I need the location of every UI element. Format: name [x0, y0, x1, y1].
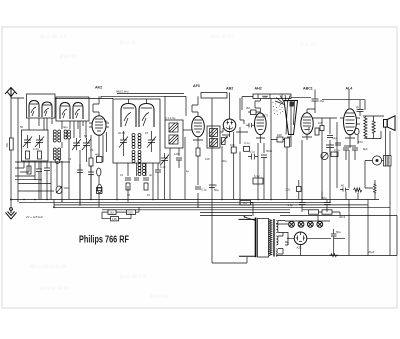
coil box L1	[27, 94, 56, 118]
coil L5	[64, 130, 71, 139]
svg-text:5000: 5000	[266, 149, 273, 153]
resistor R6	[126, 183, 130, 190]
wire col7	[79, 121, 81, 205]
svg-text:llll lllll llllll lll llll: llll lllll llllll lll llll	[120, 274, 147, 279]
svg-text:1,5µ: 1,5µ	[288, 203, 294, 207]
svg-text:30: 30	[127, 193, 131, 197]
svg-text:lllll llll llll llllll: lllll llll llll llllll	[210, 34, 233, 39]
IFT1 coil lower	[169, 135, 178, 144]
bus line 1	[11, 199, 379, 201]
wire ABC1 bottom	[302, 134, 312, 140]
svg-text:13: 13	[68, 157, 72, 161]
tuning indicator cone	[284, 101, 298, 135]
capacitor C20	[340, 188, 349, 192]
capacitor C22 50u	[324, 200, 331, 210]
resistor R11	[251, 110, 257, 115]
tube AB2 (duodiode)	[223, 119, 236, 132]
comp cluster c2	[343, 148, 358, 155]
resistor R14	[320, 126, 324, 131]
IF transformer IFT2	[207, 126, 220, 148]
ground E1	[6, 208, 17, 219]
pot arrow P1	[56, 187, 62, 194]
wire antenna to ground	[10, 150, 12, 207]
wire lamp rail	[276, 221, 330, 224]
transformer secondary heater2	[275, 249, 278, 257]
svg-text:ws: ws	[104, 119, 108, 123]
capacitor C17 50u	[331, 229, 337, 256]
svg-text:4µ: 4µ	[214, 183, 218, 187]
wire audio col1	[301, 140, 303, 200]
svg-text:0,5M: 0,5M	[307, 126, 311, 133]
pot circle P3	[321, 152, 328, 159]
output transformer secondary	[372, 121, 375, 133]
wire top feed left	[55, 96, 113, 98]
resistor R9	[231, 147, 236, 153]
capacitor C26	[88, 166, 94, 180]
wire L1 bottom drops	[29, 118, 52, 130]
wire psu top row	[200, 213, 290, 216]
capacitor C18	[96, 188, 102, 191]
resistor R20	[354, 188, 362, 192]
tube shield S1a	[29, 101, 39, 118]
tube shield S3a	[121, 104, 136, 128]
svg-text:4672: 4672	[262, 114, 269, 118]
svg-text:llll llll lllll: llll llll lllll	[300, 42, 316, 47]
SECTION:PSU	[200, 174, 397, 263]
junction dots left	[17, 161, 63, 180]
dial lamp LP2	[298, 221, 304, 227]
speaker coil	[384, 156, 392, 167]
wire AK2 top	[93, 96, 99, 112]
coil L3	[53, 130, 60, 142]
AK2 electrodes	[95, 112, 103, 131]
wire AL4 top	[291, 90, 349, 109]
svg-text:12: 12	[120, 173, 124, 177]
wire top bus a	[117, 93, 184, 95]
capacitor C14 25u	[312, 99, 319, 101]
wire al4 cath col	[344, 135, 358, 148]
svg-text:0,1-1,5µ: 0,1-1,5µ	[165, 116, 176, 120]
SECTION:DET	[201, 87, 298, 203]
svg-text:6,3V: 6,3V	[254, 174, 260, 178]
box 162	[240, 201, 251, 206]
svg-text:60: 60	[341, 184, 345, 188]
SECTION:GHOST	[30, 34, 316, 299]
wire audio col5	[346, 150, 355, 188]
electrode marks S2a	[61, 106, 69, 118]
svg-text:AK2: AK2	[95, 86, 102, 90]
svg-text:25µF: 25µF	[368, 250, 375, 254]
svg-text:3-12: 3-12	[160, 165, 166, 169]
speaker LS	[384, 116, 396, 131]
SECTION:BUSES	[10, 93, 397, 256]
svg-text:4µµ: 4µµ	[63, 125, 68, 129]
resistor R7	[144, 183, 148, 190]
wire AF3 col	[197, 156, 199, 207]
lamp rays	[275, 95, 290, 105]
transformer secondary HT	[276, 221, 278, 233]
svg-text:15: 15	[147, 193, 151, 197]
wire OT top	[365, 116, 384, 139]
svg-text:145: 145	[112, 217, 117, 221]
svg-text:128: 128	[205, 157, 210, 161]
capacitor C8	[176, 158, 182, 168]
svg-text:50: 50	[84, 134, 88, 138]
svg-text:2021: 2021	[127, 211, 134, 215]
junction node ant-gnd	[10, 199, 12, 201]
capacitor C9	[195, 187, 201, 189]
wire audio col3	[329, 118, 331, 202]
pot P1 1Mohm	[56, 186, 62, 194]
box 1001	[309, 210, 319, 214]
capacitor C10	[209, 185, 215, 188]
tube AF3	[192, 116, 205, 137]
svg-text:ABC1: ABC1	[303, 87, 313, 91]
anode dot	[287, 237, 289, 239]
transformer core gap lines	[273, 219, 274, 257]
svg-text:50: 50	[20, 125, 24, 129]
wire box links	[102, 207, 139, 218]
svg-text:Philips 766 RF: Philips 766 RF	[79, 235, 129, 246]
wire det col1	[222, 128, 223, 200]
box R16	[331, 152, 338, 157]
svg-text:10µ: 10µ	[332, 136, 337, 140]
resistor pot row: comp 1MO	[61, 200, 63, 203]
tube AL4	[344, 109, 357, 135]
trimmer T5	[119, 135, 128, 148]
capacitor C16 2u	[357, 100, 367, 116]
tube shield S2a	[60, 103, 70, 120]
wire right col r1	[299, 180, 358, 200]
wire mid vertical m2	[211, 99, 213, 217]
capacitor C7	[155, 163, 161, 180]
speaker field coil	[374, 184, 377, 193]
resistor R15	[315, 128, 319, 135]
wire bus drop a	[53, 200, 55, 208]
svg-text:980/2 kHz: 980/2 kHz	[116, 90, 129, 94]
bus line 5	[102, 209, 290, 211]
wire B2 col a	[116, 163, 118, 200]
wire cone down	[287, 135, 291, 148]
rectifier AZ1	[294, 232, 307, 245]
wire det col5	[263, 165, 265, 200]
wire left col1	[17, 121, 19, 202]
transformer primary winding	[269, 219, 272, 255]
wire B2 internals	[124, 131, 152, 156]
dial scale strip	[253, 94, 291, 99]
svg-text:2M: 2M	[246, 106, 251, 110]
trimmer pair T4	[82, 138, 91, 150]
wire dial feed	[242, 97, 253, 110]
svg-text:8µF: 8µF	[363, 147, 368, 151]
AK2 grid stubs	[89, 123, 109, 127]
box 2021	[127, 210, 136, 215]
wire ABC1 drop	[307, 90, 315, 114]
svg-text:2V + 128 kHz: 2V + 128 kHz	[25, 215, 43, 219]
box 145	[111, 217, 119, 221]
resistor zigzag R18	[330, 254, 338, 257]
box R12	[277, 137, 283, 142]
electrode marks S1b	[43, 105, 51, 116]
svg-text:100: 100	[230, 143, 235, 147]
svg-text:161: 161	[109, 211, 114, 215]
wire col9	[90, 135, 92, 200]
wire left col6	[68, 139, 70, 200]
wire psu bottom	[276, 255, 397, 257]
resistor P2 body	[222, 138, 226, 145]
AF3 electrodes	[194, 112, 202, 132]
wire B2 col e	[152, 163, 154, 200]
junction dots left2	[23, 199, 91, 206]
cone window	[290, 102, 295, 107]
wire left col5	[61, 142, 63, 202]
jack pins	[376, 159, 379, 162]
antenna A1	[5, 88, 17, 98]
wire left row extra	[15, 168, 35, 176]
wire AF3 cath	[193, 137, 203, 148]
electrode marks S3a	[123, 99, 134, 126]
wire B2 col c	[136, 163, 138, 176]
output transformer primary	[364, 118, 367, 139]
wire r11	[248, 111, 260, 114]
tube AH2	[254, 113, 266, 135]
wire IFT1 down	[170, 148, 179, 200]
tube shield S2b	[73, 103, 83, 120]
dial pointer marks	[258, 94, 282, 99]
SECTION:LEFT	[5, 88, 169, 220]
svg-text:50µ: 50µ	[322, 196, 327, 200]
wire AF3 top	[186, 96, 198, 116]
AL4 electrodes	[346, 113, 355, 131]
wire AK2 anode up	[165, 96, 186, 120]
AB2 diode plates	[226, 121, 233, 131]
wire left col3	[50, 161, 52, 200]
svg-text:llllll llll llllll llll llll l: llllll llll llllll llll llll llllll	[30, 264, 66, 269]
switch dot	[244, 216, 246, 218]
wire top bus b	[101, 95, 186, 97]
wire B2 col b	[127, 163, 129, 202]
box 161	[108, 210, 116, 215]
svg-text:AM: AM	[263, 95, 268, 99]
jack wires	[365, 161, 384, 189]
speckle field dial lamp glow	[273, 102, 283, 115]
wire box row conn	[302, 210, 340, 216]
capacitor C-el2	[97, 184, 101, 192]
wire ak2 pins	[103, 132, 107, 162]
IF transformer IFT1	[165, 120, 183, 148]
padder caps row	[125, 178, 149, 180]
svg-text:AB2: AB2	[226, 87, 233, 91]
svg-text:162: 162	[243, 201, 248, 205]
wire field conn	[365, 180, 375, 200]
transformer shield bracket	[239, 219, 256, 256]
wire L2 bottom drops	[62, 121, 83, 129]
wire AH2 bottom	[256, 135, 265, 143]
svg-text:llll lllll llll: llll lllll llll	[120, 40, 136, 45]
wire AH2 top	[255, 99, 260, 109]
wire osc col f	[157, 180, 159, 200]
resistor R17	[355, 128, 360, 134]
resistor R4	[89, 158, 93, 166]
trimmer pair T3	[72, 138, 81, 150]
capacitor C11	[248, 154, 258, 160]
wire det col4	[258, 143, 264, 200]
capacitor C-el1	[97, 168, 101, 176]
resistor R8	[196, 148, 200, 156]
svg-text:1µ: 1µ	[186, 169, 190, 173]
box R13	[285, 138, 290, 147]
electrode marks S1a	[30, 104, 38, 116]
wire left col4	[56, 161, 58, 186]
pot P2 volume	[221, 137, 228, 145]
wire audio col4	[336, 122, 338, 188]
wire mid col drops	[230, 93, 254, 217]
wire det row	[236, 120, 248, 132]
osc coil T2	[132, 151, 141, 163]
svg-text:50µ: 50µ	[222, 159, 227, 163]
svg-text:lllll llll llllll llll lll: lllll llll llllll llll lll	[40, 34, 67, 39]
wire AB2 cath	[222, 132, 230, 137]
wire row l1	[15, 161, 70, 163]
dial lamp LP1	[289, 221, 295, 227]
wire bottom conn	[212, 216, 247, 263]
wire det col3	[239, 98, 241, 202]
capacitor C13	[261, 155, 267, 165]
cone hatch	[286, 101, 295, 135]
trimmer C-t2	[35, 135, 44, 148]
tube shield S1b	[42, 102, 52, 117]
svg-text:4013: 4013	[339, 215, 346, 219]
capacitor C21 1.5u	[299, 200, 306, 210]
svg-text:20-90: 20-90	[118, 131, 126, 135]
wire right col drops	[318, 200, 390, 256]
svg-text:llll llllll lllll: llll llllll lllll	[150, 294, 168, 299]
AH2 electrodes	[257, 108, 265, 130]
wire row l2	[15, 179, 41, 181]
wire row l3	[18, 190, 54, 192]
svg-text:150: 150	[358, 140, 363, 144]
trimmer box TB1	[22, 130, 49, 161]
svg-text:2-20: 2-20	[33, 147, 39, 151]
wire HT row	[334, 237, 345, 239]
wire AZ1 conn	[288, 232, 331, 256]
svg-text:50µ: 50µ	[214, 188, 219, 192]
svg-text:15: 15	[145, 131, 149, 135]
wire speaker col	[386, 127, 391, 199]
comp cluster c1	[326, 143, 341, 152]
svg-text:100: 100	[5, 142, 9, 147]
box AB2 top	[201, 93, 227, 99]
capacitor C15	[327, 136, 333, 138]
trimmer T6	[147, 135, 156, 148]
svg-text:128: 128	[174, 152, 179, 156]
coil tap circle	[55, 159, 60, 164]
SECTION:AUDIO	[271, 87, 395, 203]
resistor R3	[38, 151, 42, 159]
svg-text:50µ: 50µ	[336, 230, 341, 234]
wire AL4 bottom	[345, 135, 355, 143]
bus line 3	[54, 204, 368, 206]
resistor R-ant 100	[9, 138, 13, 150]
AL4 grid stubs	[340, 118, 360, 124]
tube AK2 (octode)	[92, 116, 106, 136]
osc coil T3	[138, 164, 146, 176]
comp C19	[97, 188, 103, 194]
transformer core bar	[255, 218, 257, 258]
capacitor C24	[44, 162, 50, 178]
svg-text:AH2: AH2	[255, 87, 262, 91]
wire det col2	[233, 132, 235, 200]
svg-text:0,1µ: 0,1µ	[334, 148, 340, 152]
capacitor C12 100pF	[246, 123, 255, 128]
svg-text:1MΩ: 1MΩ	[64, 186, 70, 190]
svg-text:AF3: AF3	[193, 84, 200, 88]
svg-text:lllll llll llll llllll llll: lllll llll llll llllll llll	[40, 286, 68, 291]
wire IFT2 out	[220, 131, 223, 133]
wire drops extra	[39, 178, 91, 205]
resistor R5 4012	[97, 157, 103, 163]
box R10 408	[244, 147, 250, 152]
box switch unit	[253, 178, 263, 184]
wire row l4	[18, 183, 51, 185]
svg-text:lll llllll llll: lll llllll llll	[60, 54, 76, 59]
wire AF3 in	[183, 129, 192, 131]
capacitor C23	[36, 162, 42, 178]
jack socket J1	[372, 156, 381, 165]
trimmer T7	[160, 153, 169, 166]
resistor R21	[27, 166, 31, 174]
svg-text:40µ: 40µ	[95, 153, 100, 157]
wire sec bottoms	[278, 242, 288, 254]
svg-text:202: 202	[285, 188, 290, 192]
wire audio col2	[321, 118, 323, 200]
bus line 4	[54, 206, 390, 208]
electrode marks S2b	[74, 106, 82, 118]
dial lamp LP4	[317, 221, 323, 227]
bus junctions	[10, 199, 350, 209]
ABC1 electrodes	[303, 117, 311, 130]
wire B2 col d	[145, 163, 147, 176]
svg-text:248: 248	[277, 133, 282, 137]
pot arrow P3	[322, 153, 328, 159]
resistor R2	[26, 151, 30, 159]
svg-text:0,1µ: 0,1µ	[244, 141, 250, 145]
wire left col2	[40, 161, 42, 200]
wire left col extra a	[24, 118, 86, 180]
bus line 2	[19, 201, 330, 203]
resistor R19	[297, 186, 302, 191]
coil L4	[53, 148, 60, 160]
oscillator box B2	[113, 99, 160, 163]
wire det col6	[270, 99, 272, 200]
tube ABC1	[301, 113, 313, 135]
IFT2 coil upper	[210, 129, 218, 137]
IFT1 coil upper	[169, 123, 178, 132]
electrode marks S3b	[141, 99, 152, 126]
capacitor C25	[77, 164, 83, 178]
svg-text:2µ: 2µ	[356, 105, 360, 109]
osc coil T1	[132, 134, 141, 149]
SECTION:MIXER	[55, 84, 223, 216]
wire mid vertical m1	[184, 137, 186, 200]
svg-text:25: 25	[90, 148, 94, 152]
transformer bobbin	[258, 219, 269, 258]
svg-text:0,1µ: 0,1µ	[249, 150, 255, 154]
wire audio row2	[313, 100, 365, 118]
wire audio row1	[271, 140, 287, 200]
svg-text:AZ1: AZ1	[297, 246, 303, 250]
box 1002	[322, 210, 332, 214]
